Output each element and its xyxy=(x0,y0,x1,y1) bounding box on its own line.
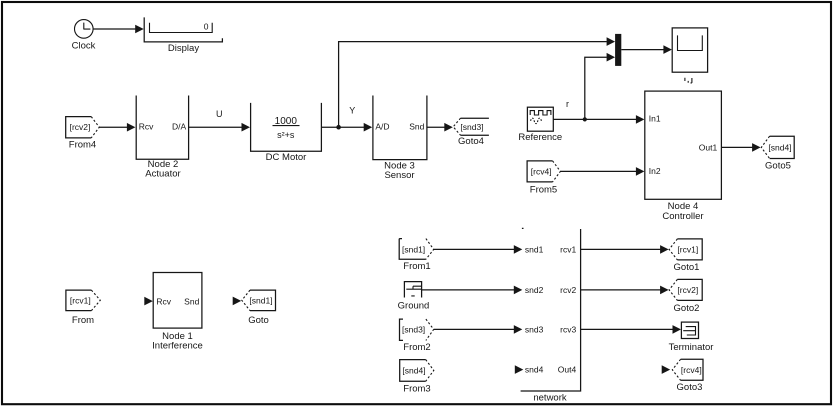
ground block Ground xyxy=(398,282,430,312)
svg-text:Actuator: Actuator xyxy=(145,169,180,180)
arrowhead into network snd1 xyxy=(514,245,523,254)
svg-text:D/A: D/A xyxy=(172,122,187,132)
svg-text:From5: From5 xyxy=(530,185,557,196)
svg-text:Snd: Snd xyxy=(184,296,199,306)
svg-text:network: network xyxy=(533,393,567,404)
arrowhead into Goto5 xyxy=(752,143,761,152)
svg-text:Ground: Ground xyxy=(398,300,430,311)
arrowhead into Goto3 xyxy=(662,365,671,374)
subsystem block Node 2 Actuator xyxy=(136,96,188,180)
arrowhead into Goto2 xyxy=(660,286,669,295)
svg-text:Goto: Goto xyxy=(248,315,269,326)
from tag From5 [rcv4] xyxy=(527,161,560,196)
svg-text:Clock: Clock xyxy=(72,41,96,52)
svg-text:U: U xyxy=(216,109,223,119)
svg-text:[snd3]: [snd3] xyxy=(402,325,425,335)
scope block Scope xyxy=(672,28,707,83)
mux block Mux xyxy=(615,34,621,66)
wire Mux to Scope xyxy=(621,49,664,51)
wire From2 to network snd3 xyxy=(434,328,515,330)
clock block Clock xyxy=(72,20,96,52)
svg-text:From4: From4 xyxy=(69,140,96,151)
goto tag Goto2 [rcv2] xyxy=(669,279,702,313)
svg-text:[snd3]: [snd3] xyxy=(460,122,483,132)
svg-text:From1: From1 xyxy=(403,261,430,272)
svg-text:[rcv2]: [rcv2] xyxy=(677,285,698,295)
wire Y branch up to Mux xyxy=(339,42,607,128)
wire network rcv1 to Goto1 xyxy=(581,248,662,250)
svg-text:Display: Display xyxy=(168,43,199,54)
svg-text:Goto5: Goto5 xyxy=(765,161,791,172)
wire Ground to network snd2 xyxy=(422,289,515,291)
subsystem block Node 4 Controller xyxy=(645,91,722,222)
svg-text:[rcv4]: [rcv4] xyxy=(531,166,552,176)
svg-text:rcv3: rcv3 xyxy=(560,324,576,334)
arrowhead into Goto1 xyxy=(660,245,669,254)
subsystem block network xyxy=(521,228,581,403)
wire From5 to Node 4 In2 xyxy=(560,170,637,172)
transfer-function block DC Motor 1000/(s^2+s) xyxy=(251,103,322,163)
arrowhead into Scope xyxy=(663,45,672,54)
arrowhead into Mux input 2 xyxy=(607,53,616,62)
terminator block Terminator xyxy=(669,322,714,353)
svg-text:[rcv1]: [rcv1] xyxy=(677,244,698,254)
svg-text:Snd: Snd xyxy=(409,122,424,132)
from tag From [rcv1] xyxy=(66,290,100,326)
arrowhead into network snd3 xyxy=(514,325,523,334)
svg-text:Y: Y xyxy=(349,106,355,116)
svg-text:rcv1: rcv1 xyxy=(560,244,576,254)
arrowhead into Node 3 xyxy=(364,123,373,132)
arrowhead into Node 2 xyxy=(127,123,135,132)
wire Node 2 to DC Motor xyxy=(189,126,244,128)
svg-text:From: From xyxy=(72,315,94,326)
junction node on r wire xyxy=(583,117,587,121)
arrowhead into Mux input 1 xyxy=(607,37,616,46)
svg-text:Sensor: Sensor xyxy=(384,170,414,181)
svg-text:snd3: snd3 xyxy=(525,324,544,334)
arrowhead into Goto xyxy=(233,297,242,306)
svg-text:[rcv1]: [rcv1] xyxy=(70,295,91,305)
svg-text:Goto2: Goto2 xyxy=(674,303,700,314)
wire Node 3 to Goto4 xyxy=(427,126,446,128)
wire Node 4 Out1 to Goto5 xyxy=(721,146,753,148)
from tag From2 [snd3] xyxy=(400,319,434,353)
arrowhead into DC Motor xyxy=(242,123,251,132)
goto tag Goto4 [snd3] xyxy=(453,118,489,147)
svg-text:[rcv2]: [rcv2] xyxy=(70,122,91,132)
svg-text:[rcv4]: [rcv4] xyxy=(681,365,702,375)
svg-text:Out1: Out1 xyxy=(699,142,718,152)
svg-text:snd1: snd1 xyxy=(525,244,544,254)
svg-text:rcv2: rcv2 xyxy=(560,285,576,295)
svg-text:Goto4: Goto4 xyxy=(458,136,484,147)
arrowhead into network snd2 xyxy=(514,286,523,295)
svg-text:Reference: Reference xyxy=(518,132,562,143)
wire Clock to Display xyxy=(93,28,137,30)
goto tag Goto5 [snd4] xyxy=(761,136,794,171)
svg-text:In2: In2 xyxy=(649,166,661,176)
svg-text:DC Motor: DC Motor xyxy=(266,152,307,163)
arrowhead into Goto4 xyxy=(444,123,453,132)
wire r branch up to Mux input 2 xyxy=(585,57,607,119)
from tag From3 [snd4] xyxy=(400,360,434,395)
from tag From4 [rcv2] xyxy=(66,117,100,151)
svg-text:[snd1]: [snd1] xyxy=(402,244,425,254)
svg-text:snd2: snd2 xyxy=(525,285,544,295)
goto tag Goto3 [rcv4] xyxy=(672,359,703,393)
arrowhead into network snd4 xyxy=(515,365,524,374)
display block Display xyxy=(144,17,222,54)
wire From4 to Node 2 xyxy=(99,126,128,128)
svg-text:0: 0 xyxy=(204,22,209,32)
from tag From1 [snd1] xyxy=(399,239,434,273)
arrowhead into Display xyxy=(135,25,144,34)
wire network rcv2 to Goto2 xyxy=(581,289,662,291)
wire DC Motor to Node 3 xyxy=(321,126,365,128)
arrowhead into Node 4 In2 xyxy=(636,167,645,176)
svg-text:snd4: snd4 xyxy=(525,365,544,375)
svg-text:s²+s: s²+s xyxy=(277,130,295,140)
junction node on Y wire xyxy=(336,125,341,130)
svg-text:[snd1]: [snd1] xyxy=(249,295,272,305)
subsystem block Node 1 Interference xyxy=(152,273,203,352)
wire From1 to network snd1 xyxy=(434,248,515,250)
wire Reference to Node 4 In1 xyxy=(553,118,637,120)
svg-text:In1: In1 xyxy=(649,113,661,123)
svg-text:[snd4]: [snd4] xyxy=(402,366,425,376)
svg-text:Controller: Controller xyxy=(662,211,703,222)
svg-text:Goto1: Goto1 xyxy=(674,262,700,273)
arrowhead into Node 1 xyxy=(144,297,153,306)
svg-text:Rcv: Rcv xyxy=(139,122,154,132)
svg-text:From2: From2 xyxy=(403,342,430,353)
svg-text:Terminator: Terminator xyxy=(669,342,714,353)
arrowhead into Node 4 In1 xyxy=(636,115,645,124)
goto tag Goto1 [rcv1] xyxy=(669,239,702,273)
goto tag Goto [snd1] xyxy=(242,290,276,326)
svg-text:Goto3: Goto3 xyxy=(677,382,703,393)
svg-text:Interference: Interference xyxy=(152,341,203,352)
svg-text:Rcv: Rcv xyxy=(156,296,171,306)
svg-text:A/D: A/D xyxy=(375,122,389,132)
subsystem block Node 3 Sensor xyxy=(373,96,427,181)
svg-text:r: r xyxy=(566,99,569,109)
signal-generator block Reference xyxy=(518,107,562,143)
svg-text:From3: From3 xyxy=(403,384,430,395)
arrowhead into Terminator xyxy=(673,325,682,334)
wire network rcv3 to Terminator xyxy=(581,328,674,330)
svg-text:Out4: Out4 xyxy=(558,365,577,375)
svg-text:[snd4]: [snd4] xyxy=(768,142,791,152)
